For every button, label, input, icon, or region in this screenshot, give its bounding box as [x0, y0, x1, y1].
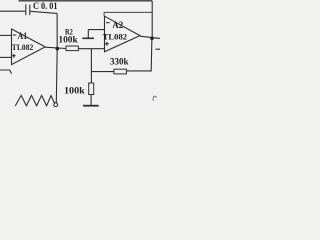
svg-text:TL082: TL082: [103, 31, 128, 41]
ground bar: [83, 105, 99, 107]
specks: [25, 4, 26, 5]
svg-text:A1: A1: [18, 31, 28, 41]
faint mark bottom right: [153, 96, 156, 101]
capacitor C plates: [26, 5, 30, 16]
wire top feedback (A2 output to left, cropped at top): [19, 0, 153, 2]
wire A1 inverting input: [0, 34, 12, 36]
svg-text:330k: 330k: [110, 57, 129, 67]
op-amp A2 triangle: [105, 16, 141, 52]
svg-text:100k: 100k: [64, 87, 86, 97]
potentiometer zigzag resistor: [15, 95, 54, 106]
wire A1 non-inverting input: [0, 56, 12, 58]
wire A2 output to right edge: [140, 36, 160, 38]
ground at A2 inverting input: [87, 30, 89, 38]
resistor 330k body: [114, 69, 126, 74]
wire A1 output to R2: [45, 47, 66, 48]
op-amp A1 triangle: [12, 29, 46, 65]
output dash right edge: [156, 48, 161, 50]
background: [0, 0, 160, 110]
wire vertical: capacitor corner through output node down to pot terminal: [55, 13, 58, 103]
resistor R2 body: [66, 46, 78, 51]
svg-text:A2: A2: [112, 20, 123, 30]
wire capacitor to corner: [30, 11, 57, 13]
wire right vertical from top wire down to output node: [151, 1, 153, 38]
wire + node down to 100k resistor: [90, 49, 92, 83]
svg-text:100k: 100k: [58, 35, 77, 45]
wire 100k to ground: [90, 95, 92, 106]
wire A2 corner to top wire: [104, 12, 152, 16]
wire R2 to A2 + input: [78, 48, 104, 50]
wire A2 inverting input: [88, 29, 104, 31]
op-amp A2 labels: [105, 23, 110, 46]
node A1 output junction: [56, 47, 60, 51]
ground bar small: [82, 37, 94, 39]
wire output node down to 330k: [126, 38, 151, 71]
wire input to capacitor: [0, 10, 25, 12]
wire 330k to A2 + input node: [91, 71, 114, 73]
node A2 output junction: [150, 37, 154, 41]
svg-text:TL082: TL082: [12, 43, 34, 52]
resistor 100k vertical body: [89, 83, 94, 95]
op-amp A1 labels: [12, 35, 16, 58]
terminal circle on pot wiper: [54, 103, 58, 107]
wire stub left edge (cropped): [0, 70, 12, 74]
svg-text:C 0. 01: C 0. 01: [33, 1, 58, 11]
